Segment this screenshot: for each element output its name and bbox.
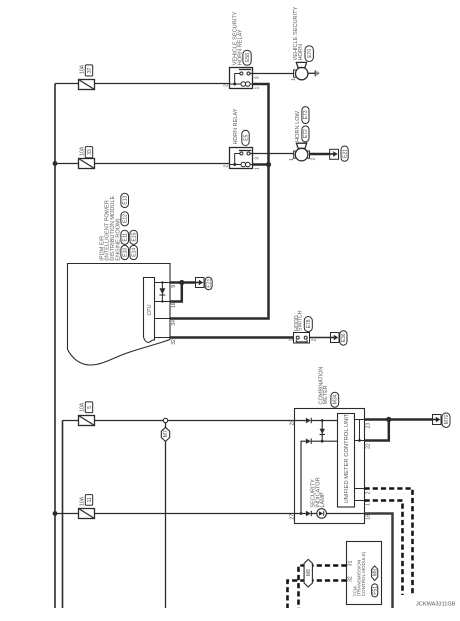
- wire meter pin28 internal: [295, 420, 338, 422]
- svg-text:E14: E14: [131, 248, 137, 257]
- svg-text:3: 3: [255, 76, 261, 79]
- connector oval E36: [340, 331, 347, 345]
- off-page arrow to E21 (IPDM): [196, 278, 205, 288]
- wire meter pin27 internal: [295, 513, 365, 515]
- svg-text:M8: M8: [306, 569, 312, 576]
- ground symbol: [315, 70, 319, 76]
- wire pin9 to E21 (thick): [170, 281, 196, 284]
- connector oval E21 (IPDM): [205, 277, 212, 290]
- wire UMCU pin22 internal: [355, 440, 365, 442]
- connector oval E11: [121, 230, 129, 244]
- svg-text:18: 18: [366, 514, 372, 520]
- fuse 33: [79, 159, 95, 169]
- connector oval F51 (TCM): [372, 584, 379, 597]
- fuse 5 number box: [85, 402, 93, 413]
- wire pin16 jumper to pin9 node (thick): [170, 283, 182, 302]
- fuse 37 number box: [85, 65, 93, 76]
- connector oval E73: [302, 107, 309, 124]
- connector oval E21 (horn): [341, 146, 348, 161]
- svg-text:10A: 10A: [80, 64, 86, 74]
- svg-text:37: 37: [87, 67, 93, 73]
- svg-text:2: 2: [311, 158, 317, 161]
- off-page arrow to M70: [433, 415, 442, 425]
- wire CPU pin9: [155, 282, 171, 284]
- TCM box: [347, 542, 382, 605]
- wire horn low to E21 (thick): [310, 153, 330, 156]
- svg-text:1: 1: [366, 503, 372, 506]
- connector oval M34: [331, 392, 339, 407]
- off-page arrow to E36: [331, 333, 340, 343]
- diode D1 inside IPDM: [159, 281, 165, 302]
- svg-text:E5: E5: [243, 134, 249, 140]
- svg-text:1: 1: [255, 87, 261, 90]
- wire fuse33 feed: [55, 163, 230, 165]
- switch S1 hood switch: [294, 333, 310, 344]
- svg-text:E10: E10: [123, 248, 129, 257]
- svg-text:32: 32: [348, 576, 354, 582]
- svg-text:9: 9: [171, 285, 177, 288]
- svg-text:2: 2: [366, 491, 372, 494]
- node lamp junction: [300, 512, 303, 515]
- svg-text:11: 11: [87, 497, 93, 502]
- node diode junction bottom: [321, 440, 324, 443]
- svg-text:E78: E78: [306, 319, 312, 328]
- svg-text:HORN RELAY: HORN RELAY: [233, 108, 239, 144]
- svg-text:LAMP: LAMP: [320, 492, 326, 508]
- horn label VEHICLE SECURITY HORN: [293, 6, 304, 60]
- wire horn1 to ground: [308, 72, 315, 74]
- fuse 33 number box: [85, 147, 93, 158]
- svg-text:34: 34: [171, 320, 177, 326]
- svg-text:1: 1: [255, 167, 261, 170]
- wire TCM pin32 dashed: [288, 581, 347, 609]
- svg-text:METER: METER: [323, 385, 329, 404]
- wire TCM pin31 dashed: [299, 566, 347, 609]
- connector oval E13: [121, 193, 129, 207]
- CPU box with torn bottom: [144, 278, 155, 343]
- connector oval E5: [242, 130, 250, 145]
- node fuse11 tap: [53, 511, 58, 516]
- IPDM E/R box with torn bottom edge: [68, 264, 171, 366]
- TCM label block: [353, 551, 366, 596]
- fuse 11 number box: [85, 495, 93, 506]
- svg-text:5: 5: [87, 406, 93, 409]
- svg-text:E13: E13: [123, 195, 129, 204]
- relay U1 vehicle security horn relay: [230, 68, 253, 89]
- wire M7 branch vertical: [165, 423, 167, 608]
- svg-text:M70: M70: [444, 414, 450, 424]
- svg-text:HORN: HORN: [298, 44, 304, 60]
- svg-text:E73: E73: [303, 110, 309, 119]
- joint connector hexagon M8 (TCM): [372, 566, 379, 581]
- node internal pin22: [358, 439, 361, 442]
- unified meter control unit box: [338, 413, 355, 507]
- svg-text:E58: E58: [245, 53, 251, 62]
- wire CPU pin16: [155, 301, 171, 303]
- svg-text:31: 31: [348, 560, 354, 566]
- horn H2 horn low: [294, 143, 310, 161]
- connector oval M70: [442, 413, 450, 428]
- relay U2 horn relay: [230, 148, 253, 169]
- svg-text:M7: M7: [163, 430, 169, 437]
- wire relay1 pin1 coil to CPU pin34 node (thick): [170, 84, 269, 319]
- wire pin22 external jumper (thick): [365, 420, 389, 441]
- connector oval E72: [302, 126, 309, 142]
- diode D5 before lamp: [306, 511, 311, 516]
- diode D4 lamp branch: [306, 439, 311, 444]
- node pin9 junction: [179, 280, 184, 285]
- connector oval E10: [121, 245, 129, 259]
- wire meter pin1 dashed to off-page: [365, 501, 403, 596]
- svg-text:E11: E11: [123, 233, 129, 242]
- combination meter label: [319, 367, 329, 405]
- svg-text:E72: E72: [303, 129, 309, 138]
- svg-text:JCKWA3311GB: JCKWA3311GB: [416, 602, 456, 608]
- svg-text:22: 22: [366, 443, 372, 449]
- svg-text:E21: E21: [206, 278, 212, 287]
- IPDM label block: [99, 195, 121, 260]
- node meter output junction: [386, 417, 391, 422]
- svg-text:2: 2: [223, 165, 229, 168]
- svg-text:32: 32: [171, 339, 177, 345]
- wire UMCU pin2 internal: [355, 488, 365, 490]
- svg-text:CONTROL MODULE): CONTROL MODULE): [361, 551, 366, 596]
- svg-text:1: 1: [289, 158, 295, 161]
- wire meter pin2 dashed to off-page: [365, 489, 413, 595]
- svg-text:3: 3: [255, 157, 261, 160]
- fuse 37: [79, 80, 95, 90]
- svg-text:10A: 10A: [80, 146, 86, 156]
- connector oval E14: [130, 245, 138, 259]
- wire diode branch to lamp feed: [301, 441, 338, 513]
- combination meter box: [295, 409, 365, 524]
- svg-text:2: 2: [223, 84, 229, 87]
- wire main battery vertical line: [54, 84, 56, 609]
- LED security indicator lamp: [317, 509, 327, 519]
- svg-text:2: 2: [311, 338, 317, 341]
- svg-text:10A: 10A: [80, 496, 86, 506]
- node connector circle M7: [163, 418, 167, 422]
- svg-text:23: 23: [366, 423, 372, 429]
- hood switch label: [294, 310, 304, 331]
- wire meter pin18 to off-page (thick): [365, 514, 393, 609]
- relay label VEHICLE SECURITY HORN RELAY: [232, 11, 243, 65]
- diode D2 meter pin28: [306, 418, 311, 423]
- svg-text:1: 1: [291, 78, 297, 81]
- wire UMCU pin23 internal: [355, 419, 365, 421]
- diode D3 vertical: [320, 421, 326, 442]
- node relay junction: [266, 162, 271, 167]
- wire relay2 pin1 to vertical node (thick): [253, 163, 269, 166]
- joint connector hexagon M8: [304, 559, 312, 587]
- horn H1 vehicle security horn: [294, 62, 308, 79]
- wire internal jumper 23-22: [359, 420, 361, 441]
- svg-text:33: 33: [87, 149, 93, 155]
- svg-text:1: 1: [288, 338, 294, 341]
- node diode junction top: [321, 419, 324, 422]
- connector oval E58: [243, 50, 251, 65]
- svg-text:E36: E36: [341, 333, 347, 342]
- wire fuse37 feed: [55, 83, 230, 85]
- connector oval E15: [130, 230, 138, 244]
- wire UMCU pin1 internal: [355, 500, 365, 502]
- svg-text:E21: E21: [342, 149, 348, 158]
- connector oval E70: [305, 46, 313, 62]
- wire fuse5 branch vertical: [62, 421, 64, 609]
- wire CPU pin32: [155, 337, 171, 339]
- wire relay2 pin3 to horn low: [250, 153, 294, 155]
- svg-text:M8: M8: [373, 569, 379, 576]
- svg-text:16: 16: [171, 302, 177, 308]
- wire relay1 pin3 to vehicle security horn: [250, 73, 294, 75]
- svg-text:E12: E12: [123, 214, 129, 223]
- wire fuse5 feed: [63, 420, 295, 422]
- connector oval E78: [304, 317, 312, 332]
- svg-text:F51: F51: [373, 586, 379, 595]
- security indicator lamp label: [310, 477, 326, 507]
- wire hood switch to E36: [310, 337, 331, 339]
- fuse 11: [79, 509, 95, 519]
- connector oval E12: [121, 212, 129, 226]
- svg-text:E70: E70: [307, 49, 313, 58]
- svg-text:10A: 10A: [80, 402, 86, 412]
- off-page arrow to E21: [330, 149, 339, 159]
- joint connector hexagon M7: [161, 427, 169, 441]
- svg-text:27: 27: [290, 514, 296, 520]
- svg-text:UNIFIED METER CONTROL UNIT: UNIFIED METER CONTROL UNIT: [344, 413, 350, 503]
- fuse 5: [79, 416, 95, 426]
- wire pin23 to M70 (thick): [365, 418, 433, 421]
- wire fuse11 feed: [55, 513, 295, 515]
- wire pin32 to hood switch (thick): [170, 336, 294, 339]
- svg-text:SWITCH: SWITCH: [298, 310, 304, 331]
- svg-text:CPU: CPU: [147, 304, 153, 315]
- svg-text:E15: E15: [131, 232, 137, 241]
- svg-text:M34: M34: [333, 394, 339, 404]
- wire CPU pin34: [155, 318, 171, 320]
- node fuse33 tap: [53, 161, 58, 166]
- svg-text:HORN LOW: HORN LOW: [295, 110, 301, 141]
